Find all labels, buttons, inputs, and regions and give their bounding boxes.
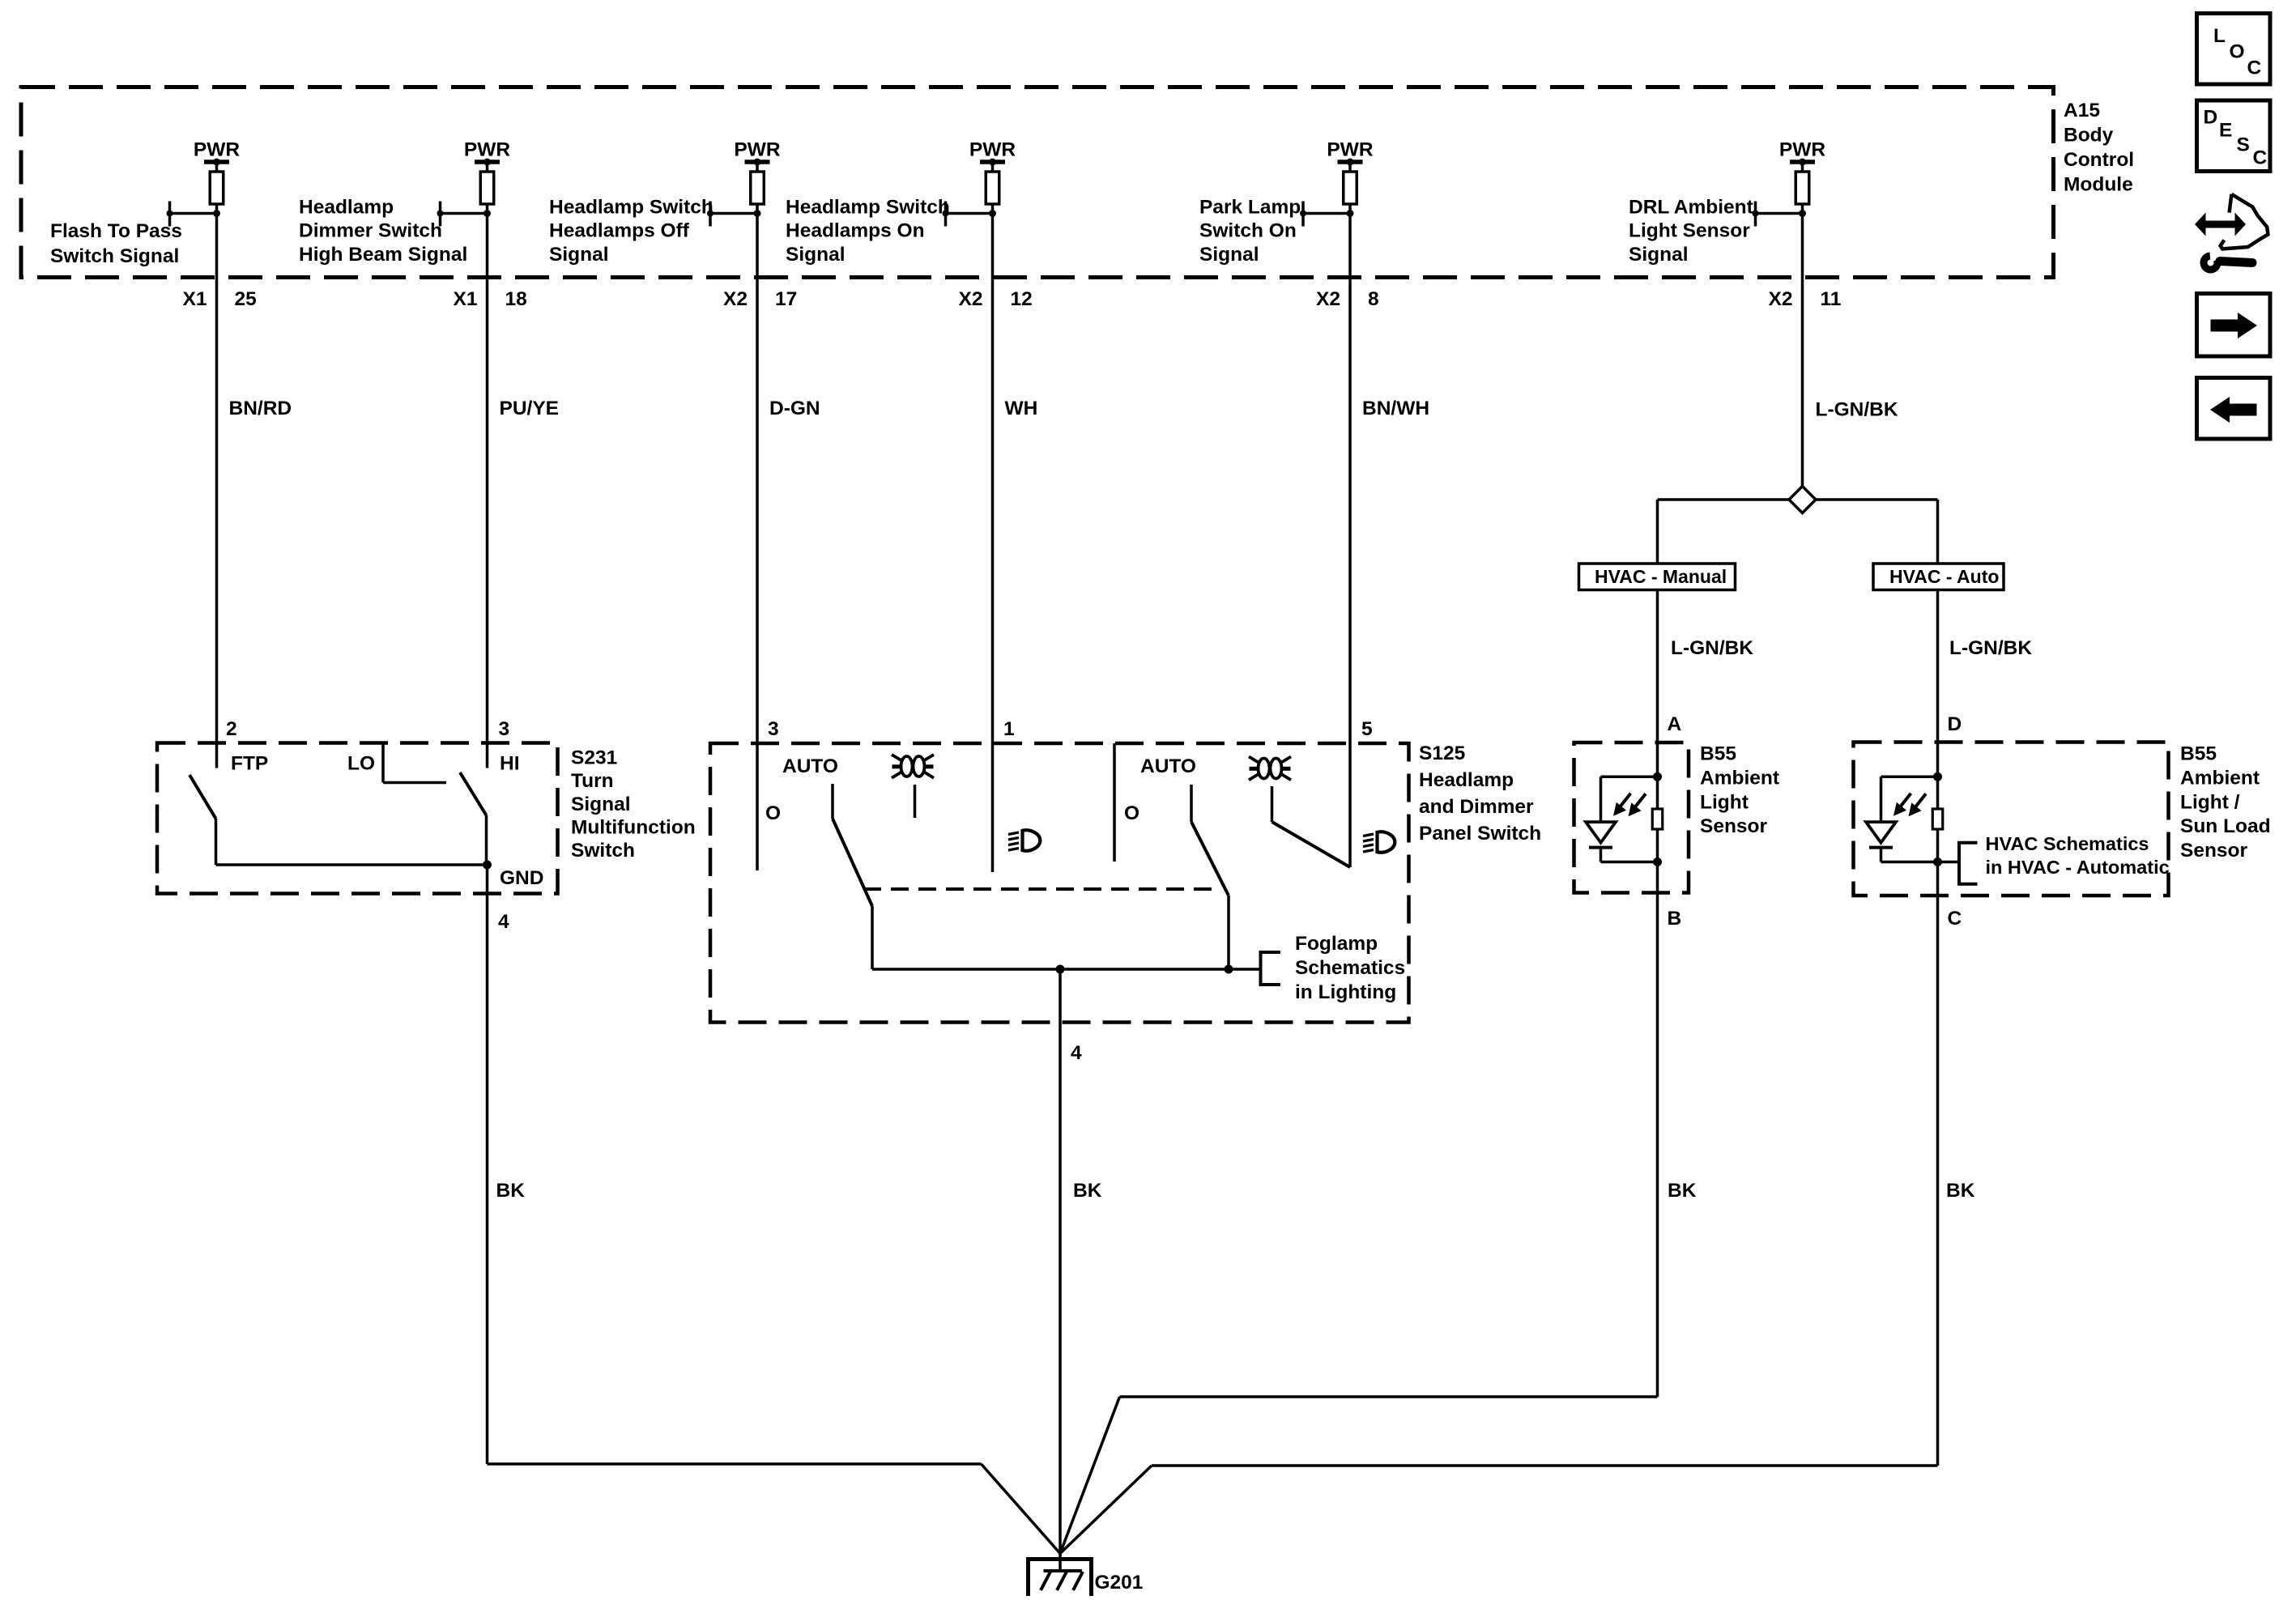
wire color label PU/YE [500, 398, 560, 419]
wire splice to HVAC-Auto branch [1816, 500, 1938, 564]
svg-text:BN/WH: BN/WH [1362, 398, 1429, 419]
label Headlamp Dimmer Switch High Beam Signal [299, 196, 467, 266]
svg-text:BK: BK [496, 1180, 526, 1202]
svg-text:HVAC - Auto: HVAC - Auto [1889, 566, 1999, 587]
contact label AUTO (right section) [1140, 755, 1196, 777]
wire HVAC-Auto box to sensor B55 pin D [1936, 590, 1940, 777]
wire X2-17 vertical (D-GN) into S125 pin 3 [756, 214, 759, 871]
icon box LOC [2197, 14, 2271, 85]
svg-text:L: L [2213, 25, 2226, 47]
svg-text:O: O [2230, 41, 2245, 63]
module A15 Body Control Module dashed box [21, 87, 2054, 278]
wire sensor pin B to ground (BK) [1060, 862, 1658, 1554]
icon box arrow right [2197, 294, 2271, 357]
pin label X1 18 at BCM connector [454, 288, 527, 310]
svg-text:L-GN/BK: L-GN/BK [1816, 399, 1898, 421]
wire FTP blade to ground bus [215, 819, 218, 865]
svg-text:E: E [2219, 120, 2232, 142]
contact LO stub [383, 743, 446, 783]
svg-text:WH: WH [1005, 398, 1038, 419]
wire HI blade to ground bus [485, 815, 488, 865]
wire X1-18 vertical (PU/YE) into S231 pin 3 [486, 214, 489, 768]
wire S125 pin 4 to ground (BK) [1059, 969, 1062, 1554]
wire X2-12 vertical (WH) into S125 pin 1 [991, 214, 995, 873]
switch blade park lamp section to pin 5 [1272, 822, 1351, 867]
svg-text:11: 11 [1821, 288, 1842, 310]
icon box arrow left [2197, 378, 2271, 440]
svg-text:BK: BK [1946, 1180, 1975, 1202]
wire color label D-GN [769, 398, 820, 419]
wire splice to HVAC-Manual branch [1658, 500, 1790, 564]
svg-text:3: 3 [768, 718, 779, 740]
label G201 [1095, 1572, 1144, 1594]
svg-text:8: 8 [1368, 288, 1379, 310]
label A15 Body Control Module [2064, 100, 2134, 195]
svg-text:B: B [1668, 908, 1682, 930]
pin label X2 17 at BCM connector [723, 288, 797, 310]
svg-text:O: O [765, 802, 781, 824]
svg-text:O: O [1124, 802, 1139, 824]
contact label GND [500, 867, 543, 889]
svg-text:D-GN: D-GN [769, 398, 820, 419]
headlamp flash icon (left section) [892, 755, 934, 778]
svg-text:X1: X1 [454, 288, 478, 310]
pin 2 label S231 [226, 718, 237, 740]
contact label HI [500, 753, 520, 775]
pin 4 label S231 [498, 911, 509, 933]
wire HVAC-Manual box to sensor B55 pin A [1656, 590, 1659, 777]
contact stub under flash icon (right section) [1271, 786, 1274, 822]
svg-text:12: 12 [1011, 288, 1033, 310]
headlamp flash icon (right section) [1249, 757, 1291, 781]
pin label X2 8 at BCM connector [1316, 288, 1379, 310]
junction S125 bus to foglamp bracket [1225, 965, 1233, 974]
PWR pull-up resistor R6 with supply bar and signal tap, column 6 [1753, 139, 1826, 227]
label Foglamp Schematics in Lighting [1295, 933, 1405, 1003]
svg-text:C: C [2247, 57, 2262, 79]
mechanical link dashed line between blades [863, 887, 1212, 891]
svg-text:AUTO: AUTO [1140, 755, 1196, 777]
svg-text:3: 3 [499, 718, 510, 740]
wire through left sensor (pin A to pin B) [1656, 777, 1659, 862]
label HVAC Schematics in HVAC - Automatic [1986, 833, 2170, 878]
pin label X2 12 at BCM connector [959, 288, 1033, 310]
svg-text:18: 18 [505, 288, 527, 310]
pin 3 label S231 [499, 718, 510, 740]
svg-text:25: 25 [235, 288, 257, 310]
wire color label BK (sensor C branch) [1946, 1180, 1975, 1202]
wire sensor pin C to ground (BK) [1060, 862, 1938, 1554]
junction GND node S231 [483, 861, 492, 870]
label DRL Ambient Light Sensor Signal [1629, 196, 1753, 266]
contact label O (right section) [1124, 802, 1139, 824]
ground G201 symbol [1029, 1554, 1092, 1597]
svg-text:BK: BK [1668, 1180, 1697, 1202]
contact O stub (right section) [1113, 743, 1116, 862]
wire color label BK (S231 branch) [496, 1180, 526, 1202]
wire color label L-GN/BK (left branch) [1671, 637, 1753, 659]
label S125 Headlamp and Dimmer Panel Switch [1419, 743, 1541, 845]
contact label O (left section) [765, 802, 781, 824]
headlamp beam icon (right section) [1363, 832, 1395, 852]
wire color label BK (sensor B branch) [1668, 1180, 1697, 1202]
wire S231 internal ground bus [216, 863, 488, 866]
switch blade AUTO left section [833, 784, 872, 969]
svg-text:G201: G201 [1095, 1572, 1144, 1594]
pin label X1 25 at BCM connector [183, 288, 257, 310]
contact label LO [347, 753, 375, 775]
sensor B55 Ambient Light / Sun Load Sensor dashed box [1854, 743, 2169, 896]
sensor B55 Ambient Light Sensor dashed box [1574, 743, 1689, 893]
label Headlamp Switch Headlamps On Signal [786, 196, 950, 266]
pin label B [1668, 908, 1682, 930]
wire color label BN/WH [1362, 398, 1429, 419]
contact label FTP [231, 753, 268, 775]
switch blade FTP (open) [190, 775, 216, 819]
label Flash To Pass Switch Signal [50, 220, 182, 267]
pin label X2 11 at BCM connector [1769, 288, 1842, 310]
photodiode with resistor network, left sensor B55 [1586, 772, 1663, 866]
contact label AUTO (left section) [782, 755, 838, 777]
wire through right sensor (pin D to pin C) [1936, 777, 1940, 862]
svg-text:4: 4 [498, 911, 509, 933]
svg-text:C: C [1948, 908, 1962, 930]
wire X1-25 vertical (BN/RD) into S231 pin 2 [215, 214, 219, 768]
svg-text:D: D [2204, 107, 2218, 129]
svg-text:LO: LO [347, 753, 375, 775]
svg-text:1: 1 [1003, 718, 1015, 740]
svg-text:X1: X1 [183, 288, 207, 310]
svg-text:BK: BK [1073, 1180, 1102, 1202]
off-page connector bracket HVAC Schematics [1938, 843, 1978, 884]
svg-text:A: A [1668, 713, 1682, 735]
svg-text:X2: X2 [959, 288, 983, 310]
pin 4 label S125 [1071, 1042, 1082, 1064]
icon box DESC [2197, 100, 2271, 172]
svg-text:BN/RD: BN/RD [229, 398, 292, 419]
wire color label L-GN/BK (right branch) [1949, 637, 2032, 659]
svg-text:FTP: FTP [231, 753, 268, 775]
pin label D [1948, 713, 1962, 735]
svg-text:X2: X2 [1316, 288, 1340, 310]
svg-text:X2: X2 [723, 288, 748, 310]
photodiode with resistor network, right sensor B55 [1866, 772, 1943, 866]
svg-text:GND: GND [500, 867, 543, 889]
svg-text:L-GN/BK: L-GN/BK [1671, 637, 1753, 659]
label B55 Ambient Light Sensor [1700, 743, 1779, 837]
svg-text:AUTO: AUTO [782, 755, 838, 777]
option box HVAC - Manual [1579, 564, 1736, 590]
headlamp beam icon (left section) [1008, 830, 1040, 850]
switch blade HI (open) [460, 772, 487, 815]
switch blade AUTO right section [1191, 785, 1229, 969]
option box HVAC - Auto [1873, 564, 2004, 590]
wire S125 internal bus to foglamp feed [872, 968, 1261, 971]
splice diamond on L-GN/BK wire [1789, 487, 1816, 513]
svg-text:4: 4 [1071, 1042, 1082, 1064]
svg-text:17: 17 [775, 288, 797, 310]
pin 3 label S125 [768, 718, 779, 740]
switch S231 Turn Signal Multifunction Switch dashed box [157, 743, 558, 894]
icon vehicle with double arrow and wrench [2195, 194, 2268, 270]
PWR pull-up resistor R4 with supply bar and signal tap, column 4 [943, 139, 1016, 227]
svg-text:HI: HI [500, 753, 520, 775]
PWR pull-up resistor R1 with supply bar and signal tap, column 1 [167, 139, 241, 227]
wire S231 pin 4 to ground (BK) [488, 865, 1061, 1554]
wire X2-11 vertical (L-GN/BK) to splice diamond [1801, 214, 1804, 487]
wire color label BK (S125 branch) [1073, 1180, 1102, 1202]
svg-text:S: S [2237, 134, 2250, 156]
wire color label L-GN/BK (upper) [1816, 399, 1898, 421]
svg-text:HVAC - Manual: HVAC - Manual [1595, 566, 1727, 587]
contact stub under flash icon (left section) [914, 785, 917, 818]
label B55 Ambient Light / Sun Load Sensor [2180, 743, 2271, 862]
pin label A [1668, 713, 1682, 735]
wire color label WH [1005, 398, 1038, 419]
label S231 Turn Signal Multifunction Switch [571, 747, 696, 862]
svg-text:X2: X2 [1769, 288, 1793, 310]
wire color label BN/RD [229, 398, 292, 419]
PWR pull-up resistor R3 with supply bar and signal tap, column 3 [707, 139, 781, 227]
svg-text:PU/YE: PU/YE [500, 398, 560, 419]
wire X2-8 vertical (BN/WH) into S125 pin 5 [1348, 214, 1352, 868]
pin 1 label S125 [1003, 718, 1015, 740]
svg-text:L-GN/BK: L-GN/BK [1949, 637, 2032, 659]
label Park Lamp Switch On Signal [1199, 196, 1301, 266]
pin 5 label S125 [1361, 718, 1373, 740]
PWR pull-up resistor R2 with supply bar and signal tap, column 2 [437, 139, 511, 227]
svg-text:D: D [1948, 713, 1962, 735]
label Headlamp Switch Headlamps Off Signal [549, 196, 714, 266]
pin label C [1948, 908, 1962, 930]
svg-text:2: 2 [226, 718, 237, 740]
PWR pull-up resistor R5 with supply bar and signal tap, column 5 [1300, 139, 1374, 227]
svg-text:5: 5 [1361, 718, 1373, 740]
junction S125 bus to pin 4 [1056, 965, 1065, 974]
switch S125 Headlamp and Dimmer Panel Switch dashed box [710, 743, 1409, 1023]
svg-text:C: C [2253, 147, 2268, 169]
off-page connector bracket Foglamp Schematics [1261, 952, 1281, 985]
